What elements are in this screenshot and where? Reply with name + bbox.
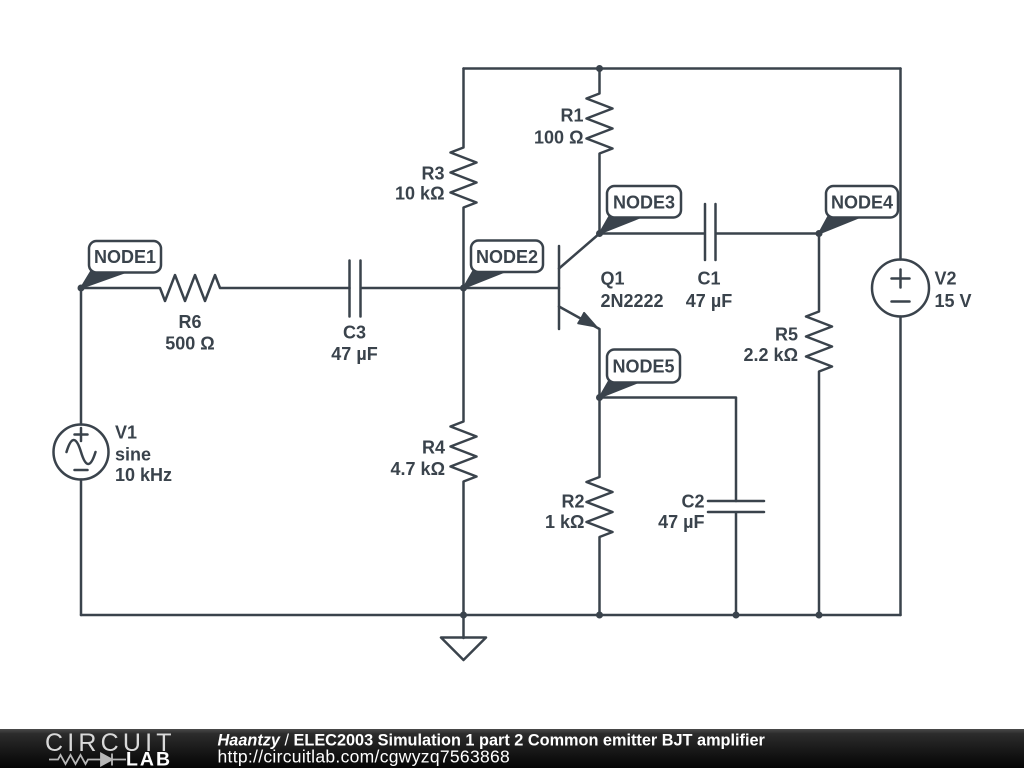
svg-text:NODE2: NODE2	[476, 247, 538, 267]
svg-text:C3: C3	[343, 323, 366, 343]
svg-text:sine: sine	[115, 445, 151, 465]
svg-text:R2: R2	[561, 492, 584, 512]
value label R4	[391, 438, 445, 480]
value label R2	[545, 492, 584, 533]
node dot R5 bottom	[816, 612, 823, 619]
value label R5	[744, 325, 798, 366]
logo LAB	[126, 749, 172, 768]
svg-text:1 kΩ: 1 kΩ	[545, 512, 584, 532]
node dot NODE2	[460, 285, 467, 292]
svg-text:LAB: LAB	[126, 749, 172, 768]
node label NODE4	[819, 186, 898, 234]
value label C2	[658, 492, 704, 533]
svg-text:C2: C2	[681, 492, 704, 512]
svg-text:R1: R1	[560, 106, 583, 126]
value label R1	[534, 106, 583, 148]
svg-text:47 µF: 47 µF	[686, 291, 732, 311]
svg-text:500 Ω: 500 Ω	[165, 334, 214, 354]
node label NODE1	[81, 241, 161, 288]
node label NODE3	[600, 186, 682, 234]
resistor R2	[587, 398, 613, 616]
node label NODE2	[464, 241, 544, 289]
svg-text:NODE1: NODE1	[94, 247, 156, 267]
svg-text:R4: R4	[422, 438, 445, 458]
node dot R2 bottom	[596, 612, 603, 619]
resistor R5	[806, 234, 832, 616]
svg-text:http://circuitlab.com/cgwyzq75: http://circuitlab.com/cgwyzq7563868	[218, 747, 511, 767]
svg-text:V2: V2	[935, 269, 957, 289]
capacitor C2	[708, 501, 764, 615]
transistor Q1	[559, 234, 600, 398]
capacitor C3	[350, 261, 464, 317]
svg-text:2.2 kΩ: 2.2 kΩ	[744, 345, 798, 365]
svg-text:NODE5: NODE5	[612, 357, 674, 377]
wire base lead	[464, 287, 560, 290]
footer url	[218, 747, 511, 767]
value label R3	[395, 164, 444, 204]
svg-text:10 kΩ: 10 kΩ	[395, 184, 444, 204]
wire node5 to C2	[600, 398, 737, 502]
svg-text:2N2222: 2N2222	[601, 291, 664, 311]
wire bottom rail	[81, 614, 901, 617]
svg-text:47 µF: 47 µF	[331, 344, 377, 364]
logo CIRCUIT	[45, 729, 176, 757]
resistor R1	[587, 69, 613, 234]
svg-text:V1: V1	[115, 423, 137, 443]
svg-text:NODE4: NODE4	[831, 193, 893, 213]
footer bar	[0, 729, 1024, 768]
node dot C2 bottom	[733, 612, 740, 619]
svg-text:47 µF: 47 µF	[658, 512, 704, 532]
resistor R3	[451, 69, 477, 289]
resistor R4	[451, 288, 477, 615]
source V1	[54, 425, 109, 480]
wire top rail	[464, 67, 901, 70]
value label V2	[935, 269, 972, 312]
svg-text:R3: R3	[421, 164, 444, 184]
node dot NODE4	[816, 230, 823, 237]
svg-text:R6: R6	[178, 312, 201, 332]
svg-text:Q1: Q1	[601, 269, 625, 289]
resistor R6	[81, 275, 350, 301]
wire right side (V2 branch)	[899, 69, 902, 616]
svg-text:100 Ω: 100 Ω	[534, 128, 583, 148]
svg-text:4.7 kΩ: 4.7 kΩ	[391, 459, 445, 479]
node label NODE5	[600, 350, 681, 398]
svg-text:R5: R5	[775, 325, 798, 345]
node dot top rail junction	[596, 65, 603, 72]
footer title	[218, 732, 766, 750]
node dot NODE5	[596, 394, 603, 401]
svg-text:C1: C1	[697, 269, 720, 289]
svg-text:15 V: 15 V	[935, 291, 972, 311]
source V2	[872, 260, 929, 317]
value label Q1	[601, 269, 664, 312]
svg-text:10 kHz: 10 kHz	[115, 465, 172, 485]
wire left side (V1 branch)	[80, 288, 83, 615]
node dot NODE3	[596, 230, 603, 237]
value label R6	[165, 312, 214, 354]
node dot NODE1	[78, 285, 85, 292]
svg-text:NODE3: NODE3	[613, 193, 675, 213]
node dot ground junction	[460, 612, 467, 619]
value label V1	[115, 423, 172, 486]
logo mini circuit glyph	[49, 754, 126, 766]
value label C3	[331, 323, 377, 365]
value label C1	[686, 269, 732, 312]
capacitor C1	[600, 204, 820, 260]
ground	[441, 615, 486, 660]
